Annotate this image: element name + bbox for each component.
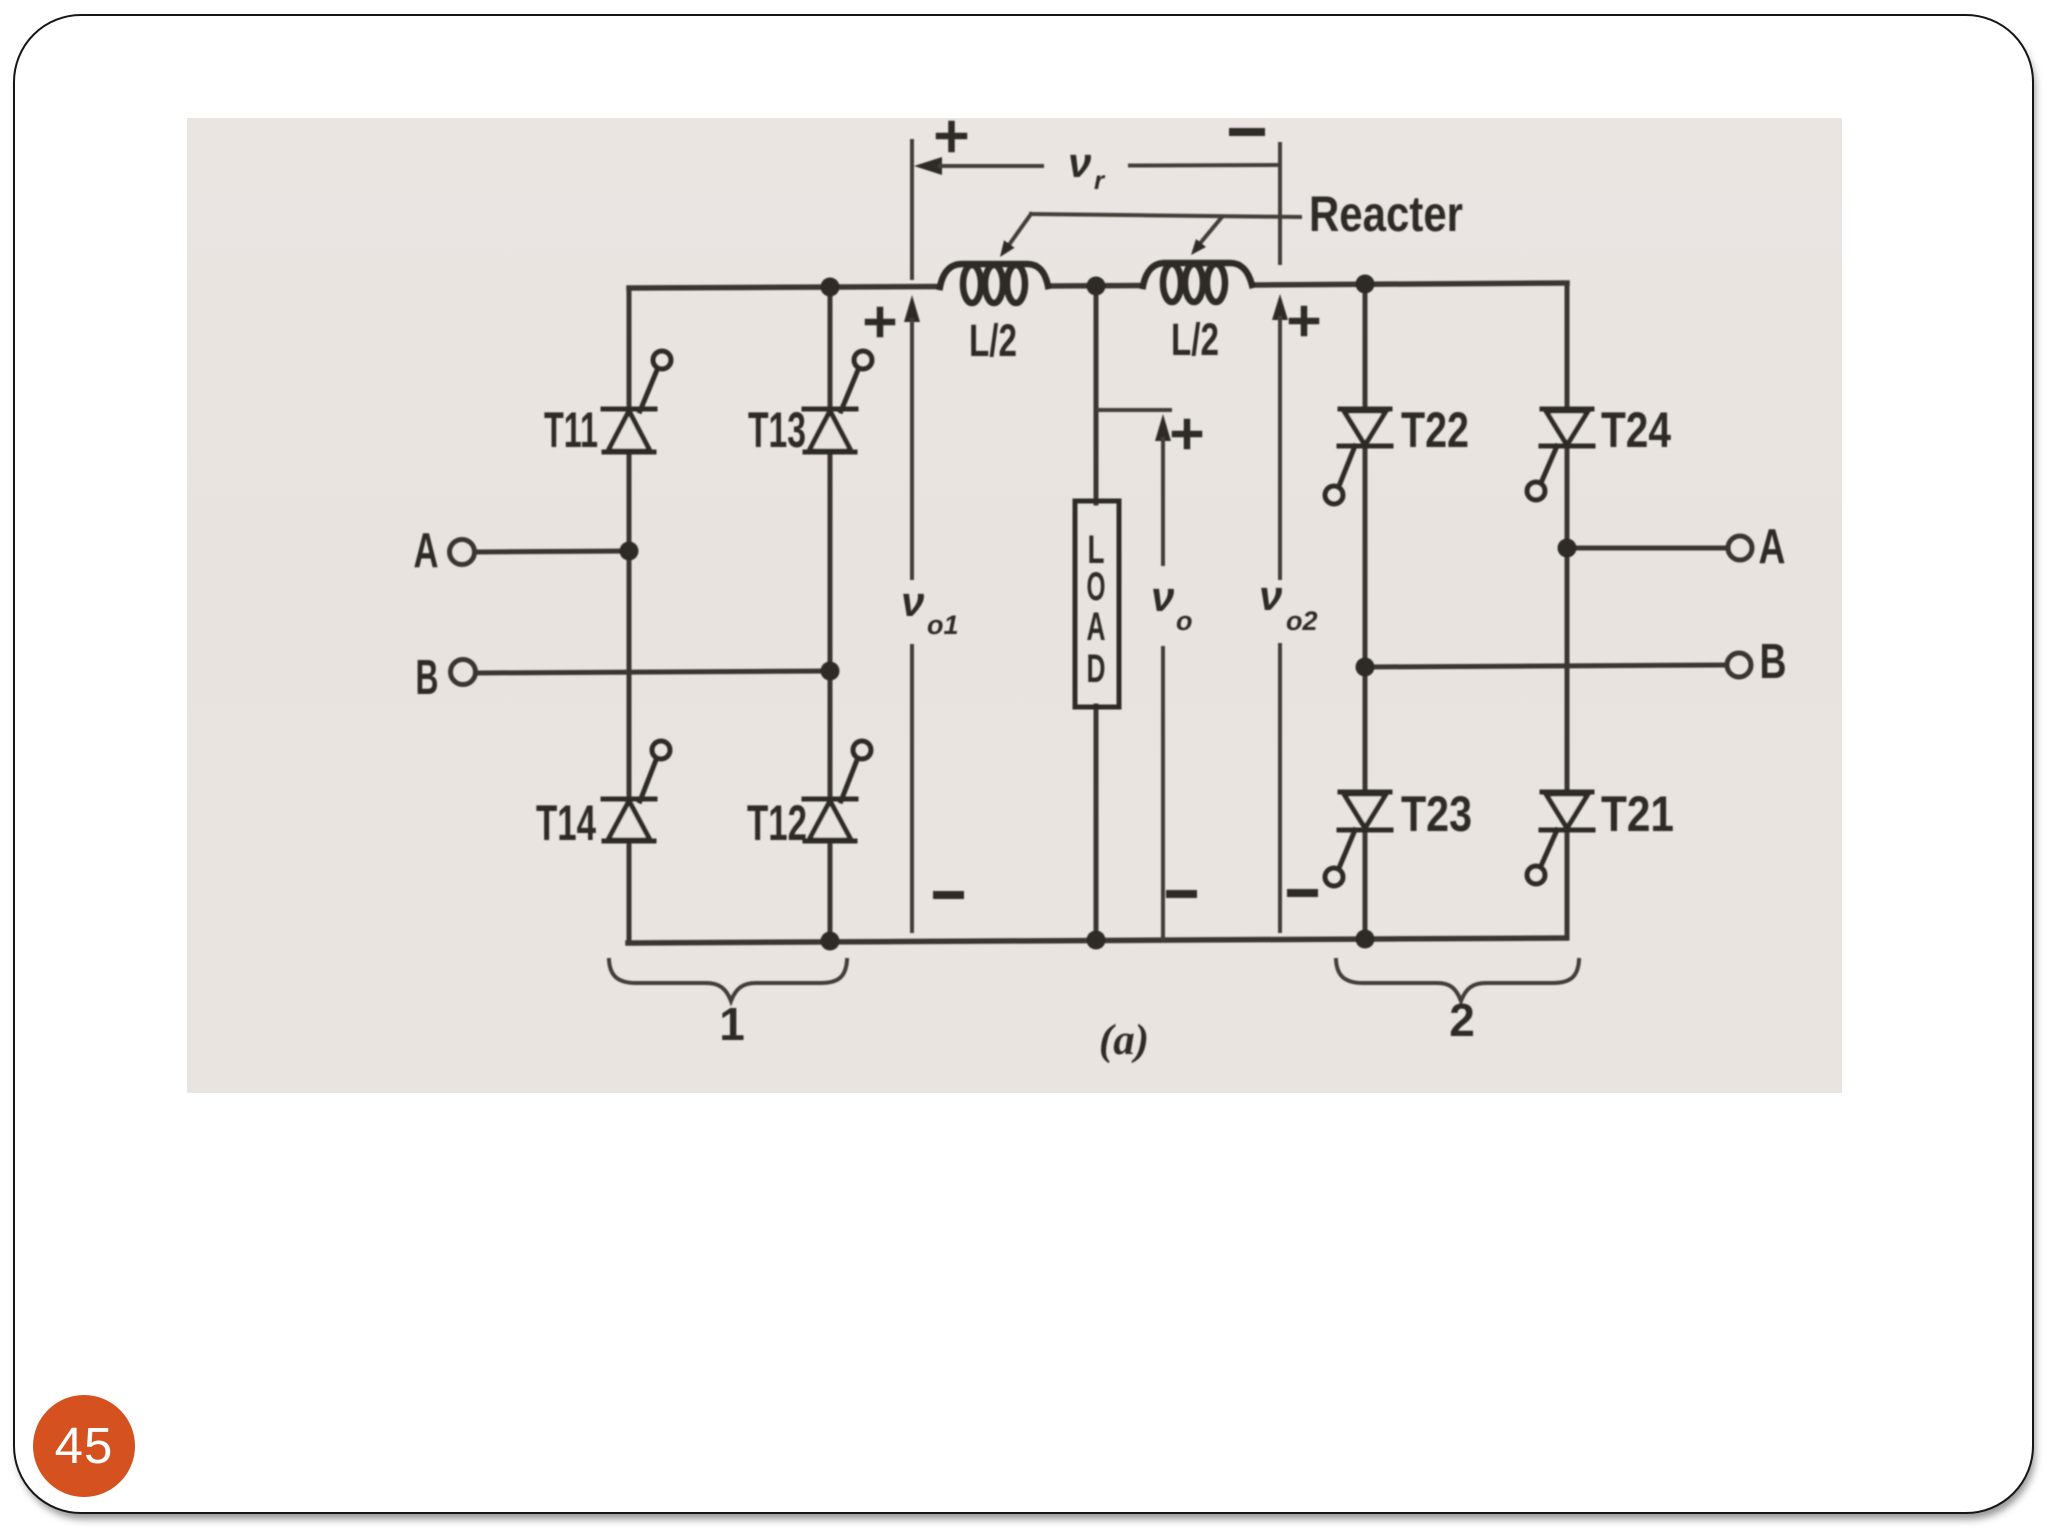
svg-text:r: r [1094,165,1106,195]
svg-text:T22: T22 [1401,402,1469,458]
svg-text:T21: T21 [1601,786,1674,842]
thyristor T22 [1325,409,1391,504]
node top bus centre-tap junction [1087,277,1106,296]
thyristor T14 [603,741,670,841]
dimension line vo2 upper segment [1278,318,1282,578]
inductor L/2 right half of reactor [1143,263,1252,302]
svg-text:T23: T23 [1401,786,1472,842]
node top bus T22 junction [1356,275,1375,294]
svg-text:T13: T13 [748,402,806,458]
thyristor T13 [804,351,872,452]
scanned circuit figure [187,118,1842,1093]
svg-text:(a): (a) [1099,1017,1149,1064]
wire B left [476,671,830,673]
wire top bus mid segment [1048,283,1143,289]
svg-text:A: A [1759,520,1786,574]
node A left junction [620,542,639,561]
wire top bus left segment [629,287,940,289]
wire branch T22-T23 [1363,284,1368,939]
dimension line vo1 lower segment [910,646,914,931]
minus sign above vr right bar [1233,128,1261,136]
thyristor T21 [1527,792,1593,884]
node bottom bus load junction [1087,931,1106,950]
svg-text:ν: ν [1151,573,1174,620]
reactor leader left arrow [1006,214,1031,249]
svg-text:A: A [414,524,439,578]
dimension line vr right bar [1278,144,1282,263]
thyristor T11 [603,351,671,452]
reactor leader middle arrow [1197,217,1222,247]
dimension line vr horizontal right part [1130,163,1280,168]
svg-text:B: B [416,651,439,705]
plus sign at vo1 top [868,310,892,334]
svg-text:O: O [1087,565,1106,609]
dimension line vo up arrowhead [1155,414,1171,441]
page number 45 [33,1395,135,1497]
thyristor T23 [1325,792,1391,886]
svg-text:2: 2 [1449,994,1475,1046]
dimension line vr horizontal left part with arrowhead [914,157,942,175]
dimension line vo1 up arrowhead [904,295,920,322]
node B left junction [821,662,840,681]
svg-text:L/2: L/2 [1171,314,1219,365]
svg-text:T12: T12 [747,795,807,851]
plus sign at vo2 top [1292,309,1316,333]
node bottom bus T23 junction [1356,930,1375,949]
minus sign at vo2 bottom [1291,889,1314,897]
plus sign at vo top [1175,422,1199,446]
minus sign at vo1 bottom [937,891,960,899]
terminal B right [1727,653,1751,677]
brace under converter 1 [609,960,847,1001]
svg-text:T24: T24 [1601,402,1671,458]
wire bottom bus [628,938,1566,943]
wire B right [1365,665,1726,667]
dimension line vo2 up arrowhead [1272,294,1288,320]
node top bus T13 junction [821,278,840,297]
dimension line vo top tick [1098,408,1170,412]
thyristor T12 [804,741,871,841]
node A right junction [1558,539,1577,558]
terminal A left [450,540,475,565]
inductor L/2 left half of reactor [940,264,1048,303]
reactor leader line [1031,214,1300,217]
svg-text:A: A [1087,605,1106,649]
brace under converter 2 [1336,960,1579,1001]
node bottom bus T12 junction [821,932,840,951]
svg-text:L/2: L/2 [969,315,1017,366]
wire left branch T11-T14 [627,288,632,943]
node B right junction [1356,658,1375,677]
svg-text:Reacter: Reacter [1309,186,1463,242]
wire right branch T24-T21 [1565,283,1570,938]
terminal A right [1728,536,1752,560]
wire load branch upper [1094,286,1099,503]
svg-text:T14: T14 [536,795,596,851]
svg-text:T11: T11 [544,402,598,458]
dimension line vr left bar [910,141,914,278]
wire branch T13-T12 [828,287,833,941]
plus sign above vr left bar [939,124,964,149]
svg-text:ν: ν [901,578,924,625]
minus sign at vo bottom [1170,890,1193,898]
dimension line vo upper segment [1161,439,1165,564]
svg-text:o: o [1176,606,1193,636]
svg-text:o2: o2 [1286,606,1318,636]
dimension line vo lower segment [1161,648,1165,939]
terminal B left [451,660,476,685]
thyristor T24 [1527,409,1593,500]
svg-text:1: 1 [719,998,745,1050]
svg-text:ν: ν [1068,139,1091,186]
svg-text:o1: o1 [927,610,959,640]
wire load branch lower [1094,706,1099,940]
svg-text:B: B [1760,635,1787,689]
wire A right [1567,546,1727,551]
dimension line vo1 upper segment [910,320,914,578]
wire top bus right segment [1252,283,1567,285]
svg-text:D: D [1087,647,1106,691]
dimension line vo2 lower segment [1278,645,1282,931]
wire A left [475,551,629,552]
svg-text:ν: ν [1259,572,1282,619]
load box [1075,501,1119,707]
